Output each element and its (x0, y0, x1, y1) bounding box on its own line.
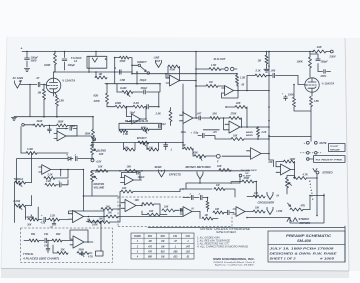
resistor R plate1 100K (44, 52, 57, 73)
wire left drop (43, 116, 58, 118)
wire xlr fb (222, 85, 239, 98)
svg-text:OUT: OUT (155, 60, 161, 63)
svg-text:.47: .47 (35, 76, 39, 80)
capacitor C grid2 (282, 92, 287, 100)
svg-text:SEND: SEND (155, 166, 162, 169)
svg-text:16pF: 16pF (70, 126, 76, 128)
resistor 13K (313, 45, 330, 53)
svg-text:STEREO: STEREO (322, 171, 332, 174)
wire B+ top rail (21, 47, 314, 53)
capacitor C fb7 (57, 125, 77, 136)
wire xo feed (180, 188, 212, 190)
svg-text:A: A (310, 190, 313, 192)
resistor R 210K (33, 120, 45, 127)
resistor R 10K u6 b (142, 210, 167, 216)
label crossover (258, 201, 275, 205)
page bottom shadow edge (1, 269, 349, 279)
ground G rail (264, 69, 269, 72)
wire fb vertical typ (100, 221, 102, 251)
resistor R low out (253, 208, 265, 213)
svg-text:SWR ENGINEERING, INC.: SWR ENGINEERING, INC. (213, 257, 255, 261)
wire mv bottom (83, 195, 118, 197)
resistor R 47K (288, 203, 311, 211)
svg-text:330pF: 330pF (140, 79, 147, 82)
resistor R 1M blend2 (147, 143, 159, 152)
svg-text:10K: 10K (106, 205, 111, 208)
resistor R 3.3K v (156, 108, 173, 126)
svg-text:500K: 500K (79, 250, 85, 252)
capacitor C1 100uF 350V (25, 52, 39, 68)
wire u8 tie (60, 169, 62, 176)
resistor R 1.5K xlr (196, 64, 224, 70)
svg-text:1M: 1M (161, 246, 164, 248)
svg-text:220K: 220K (114, 101, 122, 105)
svg-text:EFFECTS: EFFECTS (169, 173, 181, 177)
op-amp U4a (180, 84, 197, 124)
svg-text:470K: 470K (243, 177, 250, 180)
capacitor C xo2 (194, 194, 207, 200)
svg-text:BAND: BAND (134, 236, 141, 238)
resistor R xo v (206, 197, 209, 212)
svg-text:470: 470 (147, 245, 153, 248)
resistor 4.7K box (87, 251, 103, 259)
svg-text:100pF: 100pF (138, 176, 145, 179)
op-amp U7 (54, 128, 91, 141)
svg-text:ON: ON (245, 173, 249, 175)
svg-text:47K: 47K (300, 204, 306, 207)
svg-text:.022: .022 (185, 252, 190, 254)
pot TREBLE (14, 178, 32, 187)
pot THRESHOLD (119, 120, 162, 133)
svg-text:TREBLE: TREBLE (14, 178, 24, 181)
title block box (268, 231, 345, 262)
wire gnd bus (11, 116, 93, 120)
resistor R 1M xo2 (200, 212, 218, 221)
jack RETURN (197, 170, 257, 183)
svg-text:TO RIGHT PRE.: TO RIGHT PRE. (315, 159, 344, 161)
resistor R 270K (220, 113, 242, 127)
svg-text:10K: 10K (127, 166, 132, 169)
svg-text:470K: 470K (119, 60, 126, 63)
op-amp U11 (276, 164, 295, 175)
svg-text:1M: 1M (148, 241, 151, 243)
resistor R 10K bl2 (87, 202, 121, 224)
wire tone verticals (15, 153, 32, 223)
resistor R 22K top (225, 102, 247, 127)
svg-text:12823 Foothill Blvd. Unit F: 12823 Foothill Blvd. Unit F (213, 261, 256, 264)
resistor R 1M mid (95, 72, 107, 79)
svg-text:XLR OUT: XLR OUT (213, 57, 226, 61)
svg-text:GAIN: GAIN (120, 87, 126, 90)
wire plate row (54, 71, 133, 73)
op-amp U4 (225, 121, 270, 133)
svg-text:230V: 230V (320, 75, 327, 78)
resistor R 10K l2 (106, 205, 121, 209)
svg-text:CROSSOVER: CROSSOVER (258, 201, 275, 205)
capacitor C 33pf (159, 124, 166, 128)
svg-text:1.5K: 1.5K (314, 100, 319, 103)
svg-text:2.2K: 2.2K (45, 180, 51, 183)
capacitor C .47 (35, 76, 46, 87)
svg-text:5.1K: 5.1K (256, 70, 261, 73)
resistor R 470K (114, 56, 133, 84)
pot EFFECT (137, 137, 149, 146)
svg-text:100K: 100K (288, 93, 294, 96)
resistor R 2.2K t (44, 169, 69, 180)
wire fb loop2 (127, 107, 147, 119)
svg-text:33K: 33K (61, 250, 66, 252)
svg-text:10K: 10K (99, 153, 104, 156)
resistor R 3.3M (21, 148, 68, 155)
svg-text:180K: 180K (58, 121, 64, 124)
capacitor C 100uF b (310, 54, 331, 73)
heater supply box 6.3VAC (71, 52, 107, 73)
svg-text:R#1: R#1 (31, 233, 36, 236)
capacitor C 4.7u (40, 214, 49, 225)
wire fx return row (186, 174, 242, 189)
ground G1 (24, 69, 29, 72)
svg-text:TO 'LINE' JACK: TO 'LINE' JACK (241, 170, 258, 172)
svg-text:1.5K: 1.5K (123, 133, 128, 136)
svg-text:THRESHOLD: THRESHOLD (125, 120, 149, 123)
svg-text:20K: 20K (26, 225, 32, 227)
jack SEND (155, 166, 165, 177)
svg-text:TO LEFT: TO LEFT (330, 146, 339, 148)
capacitor C xo3 (224, 210, 234, 214)
resistor R 10K comp2 (210, 135, 270, 141)
svg-text:5.6µ: 5.6µ (194, 132, 199, 135)
op-amp U3 (222, 86, 270, 96)
svg-text:MONO RETURN: MONO RETURN (186, 166, 211, 169)
terminal +15V (91, 159, 102, 164)
label stereo return (299, 217, 311, 225)
svg-text:230V: 230V (329, 55, 336, 59)
resistor R#1 (24, 239, 39, 242)
wire stereo verticals (269, 160, 318, 210)
wire comp fb (203, 118, 225, 130)
svg-text:100µF: 100µF (68, 63, 76, 67)
capacitor C 5.6u (181, 131, 211, 138)
capacitor C in2 (48, 125, 52, 133)
svg-text:100µF: 100µF (321, 60, 329, 63)
pot BLEND 10K (91, 142, 107, 159)
resistor R 1M xo (214, 184, 235, 197)
op-amp U2 (126, 106, 147, 124)
svg-text:C#1: C#1 (173, 236, 178, 238)
svg-text:STEREO: STEREO (299, 217, 310, 221)
pot BASS (14, 200, 32, 210)
svg-text:.033: .033 (173, 257, 178, 259)
resistor R 100K v mid (85, 117, 95, 146)
resistor R 10K u6 fb (135, 199, 161, 215)
tube V2 half 12AX7A (305, 75, 335, 92)
resistor R 10K mid xo (162, 205, 183, 212)
svg-text:4.7µ: 4.7µ (40, 222, 46, 225)
right margin shade (345, 38, 360, 271)
resistor R 100K out (276, 158, 295, 170)
label typical (22, 253, 59, 260)
resistor R 10K comp (210, 113, 220, 120)
svg-text:10K: 10K (254, 193, 259, 195)
resistor R grid 1M (38, 84, 46, 118)
jack stereo return R (293, 218, 297, 222)
svg-text:100K: 100K (290, 158, 296, 161)
pot LEVEL 20K (25, 207, 42, 227)
input jack J1 (12, 77, 24, 88)
op-amp U12 HI (180, 207, 200, 217)
resistor R hi out (247, 193, 265, 198)
svg-text:A: A (309, 184, 312, 186)
svg-text:10K: 10K (268, 162, 273, 164)
svg-text:1A: 1A (74, 60, 77, 63)
svg-text:10K: 10K (255, 208, 260, 210)
terminal 230V (329, 50, 336, 58)
resistor R 10K mono (186, 165, 232, 172)
resistor R 4.7K bal (294, 170, 318, 216)
title text (270, 233, 337, 260)
capacitor C fb5 (122, 171, 141, 180)
op-amp U1 (166, 75, 197, 86)
resistor R#2 (52, 239, 73, 242)
labels R C typical (31, 233, 61, 236)
svg-text:470: 470 (147, 251, 153, 254)
op-amp U5 (121, 175, 145, 185)
switch dashed (300, 152, 321, 155)
svg-text:3.3K: 3.3K (156, 113, 161, 116)
svg-text:SHEET 1 OF 2: SHEET 1 OF 2 (270, 256, 297, 260)
capacitor C2 100uF (62, 52, 75, 71)
jack HI OUT (267, 192, 279, 199)
svg-text:C#1: C#1 (44, 233, 49, 236)
svg-text:10K: 10K (215, 209, 220, 211)
svg-text:R#1: R#1 (148, 236, 153, 238)
capacitor C#2 (44, 240, 50, 253)
page right edge (345, 38, 349, 271)
capacitor C .068 inter (267, 70, 305, 86)
resistor R 470K fb (168, 65, 180, 81)
pot BALANCE (286, 176, 315, 202)
wire right rail (268, 52, 270, 161)
dashed box fx (118, 197, 232, 227)
resistor R 8.2K (127, 101, 147, 108)
resistor R plate2 100K (297, 51, 312, 77)
resistor R 1.5K v xlr (236, 73, 246, 87)
wire x183 drop (182, 124, 184, 149)
resistor R 1M rail (258, 51, 269, 69)
dashed box typical (21, 228, 113, 263)
svg-text:SPECIFIED: SPECIFIED (216, 231, 236, 234)
svg-text:10K: 10K (149, 210, 154, 213)
capacitor C xo1 (183, 194, 193, 200)
wire blend row (91, 142, 184, 144)
jack LOW OUT (267, 207, 283, 214)
pot MASTER VOLUME (91, 170, 105, 196)
svg-text:1.5K: 1.5K (211, 64, 216, 67)
svg-text:220K: 220K (140, 127, 147, 129)
jack STEREO (313, 169, 333, 175)
svg-text:HI: HI (192, 209, 195, 211)
svg-text:TYPICAL: TYPICAL (23, 253, 34, 256)
svg-text:4.7K: 4.7K (87, 256, 93, 259)
svg-text:20K: 20K (94, 170, 100, 173)
svg-text:+: + (21, 47, 23, 51)
page left edge (1, 37, 7, 269)
resistor R 10K out2 (106, 212, 183, 218)
resistor R 2.2K m (45, 180, 59, 186)
wire direct to xlr (195, 51, 197, 118)
svg-text:C#2: C#2 (186, 236, 191, 238)
wire u1 drop (195, 85, 197, 87)
svg-text:22K: 22K (235, 102, 241, 105)
capacitor C after diode (74, 155, 94, 161)
resistor R 2.2K bl (49, 215, 69, 221)
svg-text:VOLUME: VOLUME (94, 186, 105, 189)
capacitor C coupling .1 (114, 67, 121, 74)
svg-text:.047: .047 (185, 245, 190, 248)
wire input drop (20, 84, 37, 117)
svg-text:4.7K: 4.7K (302, 173, 308, 176)
svg-text:4 PLACES (SEE CHART): 4 PLACES (SEE CHART) (22, 257, 59, 260)
capacitor C row2 (147, 92, 160, 109)
svg-text:.068: .068 (173, 252, 178, 254)
svg-text:1M: 1M (205, 215, 208, 217)
resistor R 220K (107, 101, 127, 108)
svg-text:2.2K: 2.2K (261, 132, 267, 134)
svg-text:10K: 10K (122, 187, 127, 190)
op-amp U8 (39, 165, 84, 211)
wire stereo return bottom (246, 194, 325, 223)
diode D1 (66, 155, 73, 161)
pot 100K fs (192, 149, 206, 161)
resistor R 1M xlr (195, 81, 224, 89)
resistor R 10K s2 (125, 166, 137, 173)
svg-text:BRWN: BRWN (246, 135, 253, 137)
box to right preamp (307, 156, 346, 163)
resistor R cathode 1.5K (55, 93, 65, 117)
resistor R 1.5K b (119, 130, 128, 136)
op-amp U9 (69, 210, 105, 222)
resistor R 470K xo (231, 177, 257, 196)
svg-text:470K: 470K (93, 99, 101, 103)
svg-text:R#2: R#2 (161, 236, 166, 238)
box to left power amp (329, 144, 346, 152)
jack LINE OUT (154, 57, 162, 68)
notes text (196, 228, 250, 249)
svg-text:Sylmar, California 91342: Sylmar, California 91342 (215, 264, 256, 267)
capacitor C#1 (39, 238, 52, 242)
terminal +12 (91, 136, 96, 147)
wire send row (91, 170, 250, 172)
svg-text:LEVEL: LEVEL (26, 217, 34, 219)
resistor R 82K (93, 84, 109, 107)
resistor R 5.1K inter (255, 70, 267, 77)
resistor R 10K l (101, 208, 113, 211)
svg-text:MUTE: MUTE (320, 142, 327, 145)
svg-text:½ 12AX7A: ½ 12AX7A (322, 81, 335, 85)
svg-text:350V: 350V (31, 59, 37, 63)
svg-text:DIRECT: DIRECT (137, 61, 147, 64)
svg-text:PREAMP SCHEMATIC: PREAMP SCHEMATIC (286, 233, 331, 238)
capacitor C .047 (195, 113, 210, 120)
svg-text:+15: +15 (213, 131, 218, 134)
svg-text:10K: 10K (135, 199, 140, 202)
svg-text:10K: 10K (99, 217, 104, 220)
wire left col2 (16, 159, 66, 184)
wire direct bus (131, 73, 237, 78)
table band values (131, 233, 194, 259)
resistor R 1M blend1 (124, 143, 136, 152)
svg-text:10K: 10K (217, 165, 222, 168)
op-amp U6 (121, 199, 143, 211)
svg-text:DESIGNED & DWN: R.W. RABE: DESIGNED & DWN: R.W. RABE (270, 252, 337, 256)
svg-text:.047: .047 (197, 113, 202, 116)
wire bottom frame (148, 226, 345, 262)
svg-text:1M: 1M (161, 241, 164, 243)
company block (213, 257, 256, 267)
svg-text:HI: HI (277, 195, 280, 198)
svg-text:LOW: LOW (277, 210, 283, 213)
svg-text:3.3M: 3.3M (27, 148, 33, 151)
svg-text:10K: 10K (233, 135, 238, 138)
svg-text:470K: 470K (169, 68, 176, 71)
capacitor C 330pf (133, 84, 160, 94)
svg-text:33pf: 33pf (161, 124, 166, 126)
resistor R 1M low (182, 144, 193, 150)
svg-text:BRWN: BRWN (246, 132, 253, 134)
label 16pF (130, 112, 136, 115)
svg-text:# 1005: # 1005 (320, 256, 335, 260)
svg-text:100Ω: 100Ω (181, 131, 187, 134)
label brwn (246, 132, 253, 137)
wire plate1 to rail (54, 65, 56, 73)
op-amp U13 LOW (233, 207, 253, 217)
svg-text:10K: 10K (212, 113, 217, 116)
capacitor C .01 (50, 220, 56, 229)
svg-text:100K: 100K (85, 133, 91, 136)
svg-text:EFFECT: EFFECT (137, 137, 147, 140)
op-amp U4b (222, 148, 273, 165)
terminal FS (206, 154, 220, 163)
pot 500K (77, 250, 92, 257)
svg-text:1.5K: 1.5K (240, 77, 245, 80)
svg-text:PWR AMP: PWR AMP (330, 149, 340, 151)
wire u9 out (89, 216, 107, 218)
svg-text:JULY 19, 1989 PCB# 170008: JULY 19, 1989 PCB# 170008 (270, 247, 335, 251)
svg-text:100K: 100K (44, 63, 51, 67)
op-amp U10 (70, 230, 93, 248)
resistor R 10K xo (213, 209, 224, 214)
resistor R grid2 100K (288, 85, 311, 112)
svg-text:2.2K: 2.2K (47, 173, 53, 176)
jack stereo return L (287, 218, 291, 222)
capacitor C tone (58, 180, 68, 187)
svg-text:1M: 1M (161, 257, 164, 259)
switch DIRECT (132, 61, 150, 74)
svg-text:2.2K: 2.2K (49, 215, 55, 218)
svg-text:270K: 270K (230, 113, 237, 116)
resistor R 10K mv (120, 187, 180, 202)
label XLR OUT (213, 57, 226, 61)
resistor R 33K typ (53, 245, 68, 255)
jack XLR pins (225, 67, 237, 70)
terminal in2 (21, 124, 33, 154)
capacitor C .1 blend (164, 142, 173, 152)
tube V1 half 12AX7A (46, 72, 75, 96)
svg-text:.068: .068 (271, 70, 276, 73)
svg-text:R#2: R#2 (56, 233, 61, 236)
wire interstage (246, 75, 270, 92)
resistor R 22K v (257, 126, 267, 139)
